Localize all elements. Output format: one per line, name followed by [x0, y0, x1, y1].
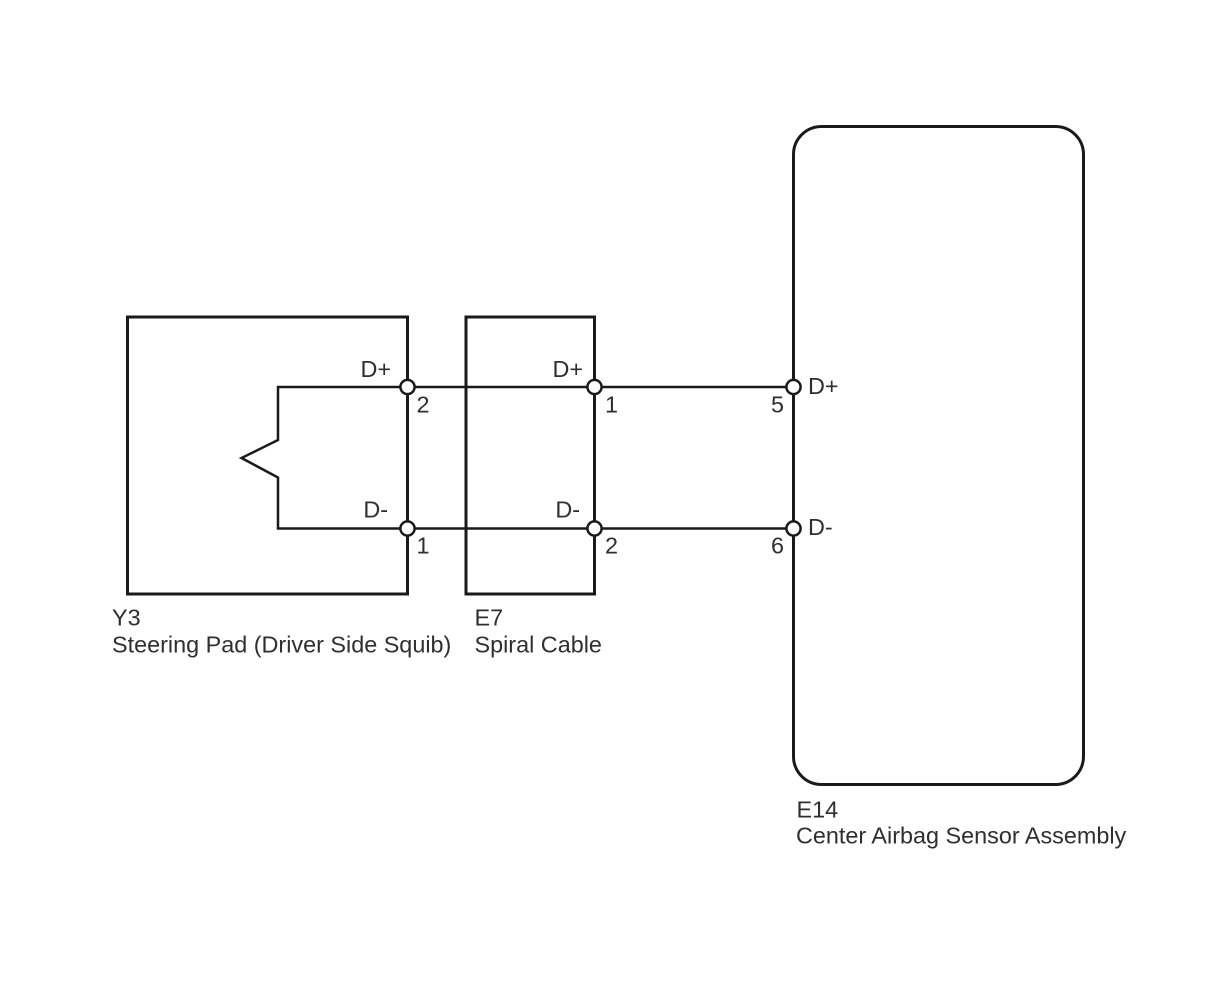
svg-text:E7: E7	[475, 605, 504, 631]
svg-text:2: 2	[605, 533, 618, 559]
wire D+ net (Y3:2 to E7:1 to E14:5)	[408, 386, 794, 389]
pin terminal Y3-1	[400, 521, 414, 535]
svg-text:1: 1	[417, 533, 430, 559]
svg-text:D-: D-	[555, 497, 580, 523]
svg-text:E14: E14	[797, 797, 839, 823]
component E14 box (Center Airbag Sensor Assembly)	[794, 127, 1084, 785]
svg-text:Center Airbag Sensor Assembly: Center Airbag Sensor Assembly	[796, 823, 1127, 849]
svg-text:D+: D+	[808, 373, 839, 399]
svg-text:2: 2	[417, 392, 430, 418]
component E7 box (Spiral Cable)	[466, 317, 595, 594]
svg-text:6: 6	[771, 533, 784, 559]
squib symbol inside Y3	[242, 387, 407, 529]
pin terminal E7-2	[587, 521, 601, 535]
svg-text:1: 1	[605, 392, 618, 418]
pin terminal E7-1	[587, 380, 601, 394]
svg-text:D+: D+	[552, 356, 583, 382]
svg-text:Steering Pad (Driver Side Squi: Steering Pad (Driver Side Squib)	[112, 632, 451, 658]
svg-text:Y3: Y3	[112, 605, 141, 631]
pin terminal Y3-2	[400, 380, 414, 394]
svg-text:5: 5	[771, 392, 784, 418]
svg-text:D-: D-	[808, 514, 833, 540]
wire D- net (Y3:1 to E7:2 to E14:6)	[408, 527, 794, 530]
component Y3 box (Steering Pad)	[128, 317, 408, 594]
svg-text:Spiral Cable: Spiral Cable	[475, 632, 602, 658]
pin terminal E14-5	[786, 380, 800, 394]
svg-text:D-: D-	[363, 497, 388, 523]
svg-text:D+: D+	[360, 356, 391, 382]
pin terminal E14-6	[786, 521, 800, 535]
